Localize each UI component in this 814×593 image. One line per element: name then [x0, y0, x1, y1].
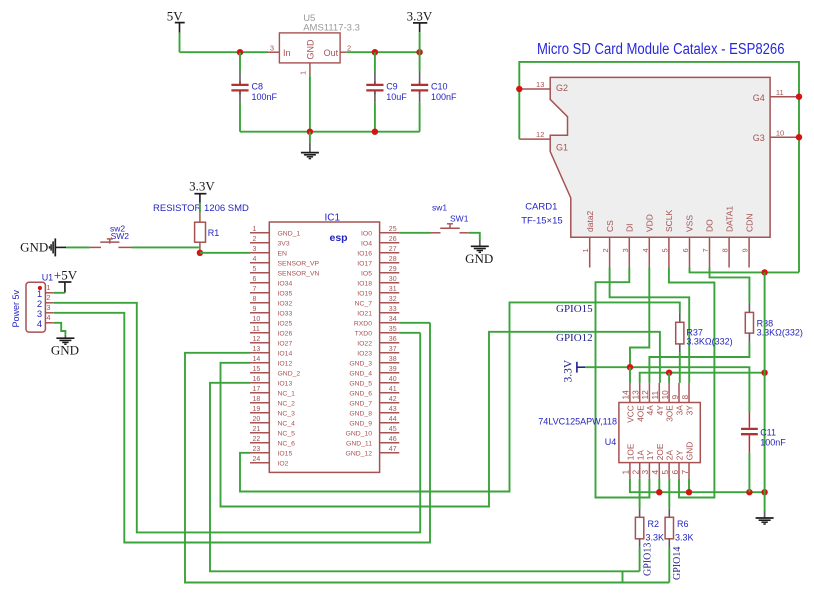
junction GND bus at pin4	[656, 489, 662, 495]
IC1 pin 31 IO19	[380, 292, 400, 294]
IC1 pin 33 IO21	[380, 312, 400, 314]
svg-text:3OE: 3OE	[665, 405, 675, 422]
wire card DO to R38	[710, 268, 750, 303]
svg-text:39: 39	[389, 366, 397, 373]
svg-text:IO14: IO14	[278, 351, 293, 358]
U4 pin 13 4OE	[639, 383, 641, 403]
svg-text:1A: 1A	[635, 450, 645, 461]
svg-text:4: 4	[641, 248, 650, 252]
svg-text:19: 19	[253, 406, 261, 413]
sd card pin 12 G1	[519, 138, 550, 140]
svg-text:45: 45	[389, 426, 397, 433]
svg-text:+5V: +5V	[54, 268, 78, 283]
svg-text:1: 1	[299, 71, 308, 75]
svg-text:3: 3	[46, 303, 50, 312]
IC1 pin 41 GND_6	[380, 392, 400, 394]
IC1 pin 34 RXD0	[380, 322, 400, 324]
svg-text:3.3K: 3.3K	[675, 533, 694, 543]
svg-text:In: In	[283, 48, 291, 58]
IC1 pin 2 3V3	[250, 242, 269, 244]
svg-text:3: 3	[270, 43, 274, 52]
capacitor C8	[239, 52, 241, 71]
svg-text:1: 1	[621, 470, 631, 475]
svg-text:21: 21	[253, 426, 261, 433]
svg-text:41: 41	[389, 386, 397, 393]
svg-text:NC_5: NC_5	[278, 431, 296, 438]
svg-text:3: 3	[253, 246, 257, 253]
IC1 pin 45 GND_10	[380, 432, 400, 434]
svg-text:TXD0: TXD0	[355, 331, 373, 338]
svg-text:13: 13	[253, 346, 261, 353]
svg-text:2: 2	[347, 43, 351, 52]
svg-text:C10: C10	[431, 82, 448, 92]
wire U1 pin2 (TXD0 net, down-right-up)	[54, 303, 420, 533]
svg-text:27: 27	[389, 246, 397, 253]
IC1 pin 8 IO32	[250, 302, 269, 304]
svg-text:C11: C11	[760, 428, 776, 438]
svg-text:IO35: IO35	[278, 291, 293, 298]
U4 pin 7 GND	[688, 463, 690, 479]
IC1 pin 42 GND_7	[380, 402, 400, 404]
svg-text:31: 31	[389, 286, 397, 293]
svg-text:VDD: VDD	[645, 214, 655, 232]
connector U1 pin 4	[45, 322, 53, 324]
svg-text:3.3V: 3.3V	[407, 8, 433, 23]
wire GND trunk	[764, 272, 766, 511]
svg-text:GND: GND	[51, 343, 79, 358]
svg-text:2: 2	[46, 293, 50, 302]
sd card pin 10 G3	[770, 136, 799, 138]
IC1 pin 44 GND_9	[380, 422, 400, 424]
svg-text:30: 30	[389, 276, 397, 283]
wire card SCLK right-down to U4 2Y	[669, 268, 715, 498]
svg-text:GND: GND	[685, 442, 695, 460]
svg-text:6: 6	[681, 248, 690, 252]
junction G2 pad	[516, 86, 522, 92]
wire SW2 to R1 junction	[132, 246, 199, 248]
U4 pin 4 2OE	[658, 463, 660, 479]
svg-text:12: 12	[640, 390, 650, 400]
svg-text:2OE: 2OE	[655, 443, 665, 460]
svg-text:11: 11	[776, 88, 784, 97]
junction on In wire at C8	[237, 49, 243, 55]
wire R2 bottom to GPIO13 line	[639, 548, 641, 571]
svg-text:2: 2	[601, 248, 610, 252]
svg-text:TF-15×15: TF-15×15	[521, 216, 562, 227]
wire GPIO12 net from IC1 pin14 IO12	[221, 332, 660, 507]
IC1 pin 3 EN	[250, 252, 269, 254]
sd card pin 5 SCLK	[668, 237, 670, 267]
svg-text:9: 9	[741, 248, 750, 252]
svg-text:1OE: 1OE	[626, 443, 636, 460]
svg-text:14: 14	[621, 390, 631, 400]
IC1 pin 35 TXD0	[380, 332, 400, 334]
svg-text:IO13: IO13	[278, 381, 293, 388]
svg-text:2: 2	[253, 236, 257, 243]
U4 pin 11 4Y	[658, 383, 660, 403]
svg-text:SW2: SW2	[111, 231, 130, 241]
svg-text:28: 28	[389, 256, 397, 263]
svg-text:DATA1: DATA1	[724, 206, 734, 232]
IC1 pin 19 NC_3	[250, 412, 269, 414]
svg-text:NC_6: NC_6	[278, 441, 296, 448]
svg-text:EN: EN	[278, 251, 288, 258]
wire U1 pin3 (RXD0 net, down-right-up)	[54, 313, 430, 543]
svg-text:DI: DI	[625, 224, 635, 233]
svg-text:GND_12: GND_12	[346, 451, 373, 458]
svg-text:12: 12	[253, 336, 261, 343]
junction OE rail at U4 3OE	[666, 370, 672, 376]
wire GPIO15 net from IC1 pin23 IO15	[240, 302, 680, 491]
svg-text:IO0: IO0	[361, 231, 372, 238]
svg-text:RXD0: RXD0	[354, 321, 372, 328]
svg-text:IO19: IO19	[357, 291, 372, 298]
svg-text:100nF: 100nF	[431, 92, 457, 102]
wire jog GPIO13/GPIO14	[622, 571, 624, 582]
U4 pin 1 1OE	[629, 463, 631, 479]
wire 3.3V stem	[419, 32, 421, 52]
svg-text:IO12: IO12	[278, 361, 293, 368]
IC1 pin 10 IO25	[250, 322, 269, 324]
wire IC1 pin25 IO0 to SW1	[399, 232, 430, 234]
svg-text:100nF: 100nF	[252, 92, 278, 102]
svg-text:10: 10	[660, 390, 670, 400]
svg-text:SCLK: SCLK	[664, 209, 674, 232]
svg-text:GND_2: GND_2	[278, 371, 301, 378]
IC1 pin 7 IO35	[250, 292, 269, 294]
IC1 pin 16 IO13	[250, 382, 269, 384]
svg-text:2: 2	[631, 470, 641, 475]
svg-text:sw1: sw1	[432, 203, 447, 213]
ground symbol below SW1	[479, 240, 481, 246]
svg-text:10: 10	[776, 128, 784, 137]
svg-text:7: 7	[253, 286, 257, 293]
sd card pin 3 DI	[628, 237, 630, 267]
svg-text:43: 43	[389, 406, 397, 413]
svg-text:IO18: IO18	[357, 281, 372, 288]
svg-text:SW1: SW1	[450, 214, 469, 224]
svg-text:26: 26	[389, 236, 397, 243]
svg-text:esp: esp	[330, 232, 348, 244]
svg-text:3.3KΩ(332): 3.3KΩ(332)	[757, 328, 803, 338]
IC1 pin 9 IO33	[250, 312, 269, 314]
svg-text:12: 12	[536, 130, 544, 139]
svg-text:37: 37	[389, 346, 397, 353]
svg-text:3Y: 3Y	[685, 405, 695, 416]
wire card VDD down to 3.3V rail	[630, 268, 649, 368]
U4 pin 2 1A	[639, 463, 641, 479]
IC1 pin 37 IO23	[380, 352, 400, 354]
svg-text:G2: G2	[556, 83, 568, 93]
svg-text:8: 8	[721, 248, 730, 252]
IC1 pin 38 GND_3	[380, 362, 400, 364]
wire OE rail (4OE/3OE to GND trunk)	[640, 373, 765, 383]
resistor R6	[668, 479, 670, 509]
connector U1 pin 3	[45, 312, 53, 314]
IC1 pin 36 IO22	[380, 342, 400, 344]
svg-text:10: 10	[253, 316, 261, 323]
resistor R37	[679, 312, 681, 322]
svg-text:IO26: IO26	[278, 331, 293, 338]
svg-text:3.3K: 3.3K	[646, 533, 665, 543]
svg-text:IO27: IO27	[278, 341, 293, 348]
wire GND bus below U4	[630, 479, 765, 493]
IC1 pin 15 GND_2	[250, 372, 269, 374]
junction Out wire at C9	[372, 49, 378, 55]
svg-text:GND_1: GND_1	[278, 231, 301, 238]
wire 3.3V rail to U4 VCC and C11	[585, 367, 749, 412]
IC1 pin 29 IO5	[380, 272, 400, 274]
svg-text:4A: 4A	[645, 405, 655, 416]
svg-text:C9: C9	[386, 82, 398, 92]
wire R37 to U4 3A pin9	[679, 353, 681, 383]
IC1 pin 46 GND_11	[380, 442, 400, 444]
IC1 pin 1 GND_1	[250, 232, 269, 234]
svg-text:22: 22	[253, 436, 261, 443]
junction 3.3V rail at U4 VCC	[627, 364, 633, 370]
svg-text:3.3V: 3.3V	[563, 359, 575, 382]
junction bottom rail at C9	[372, 129, 378, 135]
IC1 pin 43 GND_8	[380, 412, 400, 414]
wire IC1 pin35 TXD0	[399, 332, 420, 334]
wire R38 to U4 4A pin12	[649, 343, 749, 383]
svg-text:U1: U1	[42, 273, 54, 283]
svg-text:33: 33	[389, 306, 397, 313]
svg-text:GPIO13: GPIO13	[643, 543, 654, 576]
svg-text:24: 24	[253, 456, 261, 463]
junction Out wire at C10 / 3.3V	[416, 49, 422, 55]
svg-text:NC_2: NC_2	[278, 401, 296, 408]
IC1 pin 21 NC_5	[250, 432, 269, 434]
svg-text:C8: C8	[252, 82, 264, 92]
IC1 pin 25 IO0	[380, 232, 400, 234]
IC1 pin 28 IO17	[380, 262, 400, 264]
svg-text:23: 23	[253, 446, 261, 453]
ground symbol below U1	[64, 335, 66, 338]
svg-text:IO34: IO34	[278, 281, 293, 288]
svg-text:1: 1	[581, 248, 590, 252]
svg-text:3.3V: 3.3V	[189, 179, 215, 194]
U4 pin 10 3OE	[668, 383, 670, 403]
svg-text:IO32: IO32	[278, 301, 293, 308]
svg-text:GND: GND	[305, 39, 315, 60]
wire U4 2OE pin4 to GND bus	[658, 479, 660, 493]
svg-text:IO5: IO5	[361, 271, 372, 278]
wire U1 pin4 to ground	[54, 323, 66, 335]
svg-text:100nF: 100nF	[760, 437, 786, 447]
IC1 pin 27 IO16	[380, 252, 400, 254]
svg-text:7: 7	[680, 470, 690, 475]
svg-text:GND_5: GND_5	[349, 381, 372, 388]
svg-text:NC_3: NC_3	[278, 411, 296, 418]
junction R1 bottom / EN net	[197, 250, 203, 256]
svg-text:20: 20	[253, 416, 261, 423]
svg-text:3.3KΩ(332): 3.3KΩ(332)	[686, 337, 732, 347]
svg-text:IO16: IO16	[357, 251, 372, 258]
svg-text:9: 9	[253, 306, 257, 313]
svg-text:11: 11	[253, 326, 260, 333]
svg-text:38: 38	[389, 356, 397, 363]
svg-text:NC_7: NC_7	[355, 301, 373, 308]
junction OE rail at GND trunk	[761, 370, 767, 376]
svg-text:SENSOR_VP: SENSOR_VP	[278, 261, 320, 268]
svg-text:3: 3	[640, 470, 650, 475]
wire bottom rail of regulator section	[240, 131, 420, 133]
wire SW1 to ground	[469, 233, 480, 240]
svg-text:40: 40	[389, 376, 397, 383]
svg-text:3V3: 3V3	[278, 241, 290, 248]
wire card DI left-down to U4 1Y	[596, 268, 650, 498]
svg-text:3: 3	[621, 248, 630, 252]
svg-text:GND_7: GND_7	[349, 401, 372, 408]
svg-text:Micro SD Card Module Catalex -: Micro SD Card Module Catalex - ESP8266	[537, 41, 785, 58]
wire U4 3OE pin10 up to OE rail	[668, 373, 670, 383]
wire U1 pin1 to +5V	[54, 292, 65, 294]
capacitor C9	[374, 52, 376, 71]
IC1 pin 13 IO14	[250, 352, 269, 354]
wire U4 VCC pin14 up to rail	[629, 367, 631, 383]
U4 pin 8 3Y	[688, 383, 690, 403]
svg-text:VCC: VCC	[626, 405, 636, 423]
svg-text:2Y: 2Y	[675, 450, 685, 461]
junction bottom rail at U5 GND	[307, 129, 313, 135]
IC1 pin 12 IO27	[250, 342, 269, 344]
sd card pin 8 DATA1	[728, 237, 730, 267]
U4 pin 9 3A	[678, 383, 680, 403]
svg-text:47: 47	[389, 446, 397, 453]
svg-text:1: 1	[253, 226, 257, 233]
svg-text:10uF: 10uF	[386, 92, 407, 102]
svg-text:16: 16	[253, 376, 261, 383]
wire card VSS to GND trunk	[690, 268, 800, 273]
svg-text:46: 46	[389, 436, 397, 443]
IC1 pin 14 IO12	[250, 362, 269, 364]
svg-text:9: 9	[670, 395, 680, 400]
wire card CS down-right to U4 3Y	[610, 268, 690, 383]
wire U5 Out to 3.3V	[346, 51, 419, 53]
svg-text:IO22: IO22	[357, 341, 372, 348]
svg-text:GND: GND	[465, 251, 493, 266]
svg-text:5: 5	[660, 470, 670, 475]
IC1 pin 5 SENSOR_VN	[250, 272, 269, 274]
IC1 pin 30 IO18	[380, 282, 400, 284]
junction G3 pad	[796, 134, 802, 140]
svg-text:29: 29	[389, 266, 397, 273]
wire IC1 pin34 RXD0	[399, 322, 430, 324]
svg-text:4OE: 4OE	[635, 405, 645, 422]
svg-text:NC_4: NC_4	[278, 421, 296, 428]
svg-text:3A: 3A	[675, 405, 685, 416]
svg-text:Power 5v: Power 5v	[11, 289, 21, 327]
svg-text:4: 4	[37, 319, 42, 330]
U4 pin 12 4A	[648, 383, 650, 403]
svg-text:5: 5	[253, 266, 257, 273]
IC1 pin 6 IO34	[250, 282, 269, 284]
svg-text:VSS: VSS	[685, 215, 695, 232]
IC1 pin 4 SENSOR_VP	[250, 262, 269, 264]
svg-text:6: 6	[253, 276, 257, 283]
svg-text:13: 13	[536, 80, 544, 89]
U4 pin 3 1Y	[648, 463, 650, 479]
svg-text:GND_9: GND_9	[349, 421, 372, 428]
svg-text:G4: G4	[753, 93, 765, 103]
junction VSS line / GND trunk	[761, 269, 767, 275]
junction G4 pad	[796, 94, 802, 100]
junction GND bus at C11	[746, 489, 752, 495]
sd card pin 6 VSS	[689, 237, 691, 267]
svg-text:IO33: IO33	[278, 311, 293, 318]
svg-text:IO2: IO2	[278, 461, 289, 468]
svg-text:GND_6: GND_6	[349, 391, 372, 398]
sd card pin 11 G4	[770, 96, 799, 98]
svg-text:34: 34	[389, 316, 397, 323]
IC1 pin 11 IO26	[250, 332, 269, 334]
connector U1 pin 1	[45, 292, 53, 294]
svg-text:GPIO14: GPIO14	[672, 547, 683, 580]
svg-text:GND: GND	[20, 240, 48, 255]
svg-text:IO21: IO21	[357, 311, 372, 318]
svg-text:GND_3: GND_3	[349, 361, 372, 368]
wire junction to IC1 pin 3 EN	[200, 252, 250, 254]
svg-text:5V: 5V	[167, 9, 184, 24]
wire card GND top rail	[519, 62, 799, 273]
sd card CARD1 outline	[550, 77, 770, 237]
svg-text:6: 6	[670, 470, 680, 475]
sd card pin 9 CDN	[748, 237, 750, 267]
svg-text:GND_10: GND_10	[346, 431, 373, 438]
svg-text:17: 17	[253, 386, 261, 393]
svg-text:U4: U4	[605, 437, 617, 447]
svg-text:SENSOR_VN: SENSOR_VN	[278, 271, 320, 278]
svg-text:NC_1: NC_1	[278, 391, 296, 398]
IC1 pin 40 GND_5	[380, 382, 400, 384]
svg-text:IO17: IO17	[357, 261, 372, 268]
ground symbol bottom right	[764, 511, 766, 518]
svg-text:42: 42	[389, 396, 397, 403]
wire GPIO13 net from IC1 pin16 IO13 to R2	[210, 383, 640, 572]
svg-text:IO4: IO4	[361, 241, 372, 248]
svg-text:1Y: 1Y	[645, 450, 655, 461]
svg-text:CDN: CDN	[744, 214, 754, 232]
wire GND to SW2	[66, 246, 90, 248]
svg-text:G3: G3	[753, 133, 765, 143]
wire R6 bottom to GPIO14 line	[668, 548, 670, 583]
svg-text:IO23: IO23	[357, 351, 372, 358]
svg-text:8: 8	[680, 395, 690, 400]
svg-text:8: 8	[253, 296, 257, 303]
svg-text:14: 14	[253, 356, 261, 363]
svg-text:4: 4	[46, 313, 50, 322]
resistor R2	[639, 479, 641, 509]
svg-text:25: 25	[389, 226, 397, 233]
svg-text:RESISTOR 1206 SMD: RESISTOR 1206 SMD	[153, 203, 249, 214]
svg-text:G1: G1	[556, 143, 568, 153]
IC1 pin 32 NC_7	[380, 302, 400, 304]
svg-text:1: 1	[46, 283, 50, 292]
svg-text:GND_8: GND_8	[349, 411, 372, 418]
svg-text:11: 11	[650, 391, 660, 400]
svg-text:DO: DO	[705, 219, 715, 232]
svg-text:GPIO12: GPIO12	[556, 332, 593, 344]
sd card pin 7 DO	[709, 237, 711, 267]
svg-text:32: 32	[389, 296, 397, 303]
svg-text:GPIO15: GPIO15	[556, 303, 593, 315]
svg-text:7: 7	[701, 248, 710, 252]
IC1 pin 26 IO4	[380, 242, 400, 244]
svg-text:74LVC125APW,118: 74LVC125APW,118	[538, 417, 617, 427]
svg-text:R2: R2	[648, 519, 660, 529]
IC1 pin 22 NC_6	[250, 442, 269, 444]
